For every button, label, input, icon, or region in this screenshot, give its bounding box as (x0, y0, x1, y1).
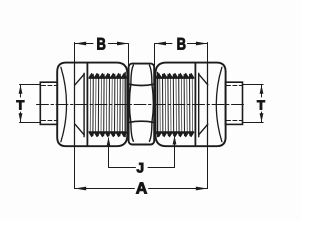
dim T right: arrows (260, 85, 264, 94)
right thread crest teeth top (157, 73, 194, 78)
hex face line upper (129, 84, 154, 85)
dim B right: line (155, 43, 173, 45)
hex facet edge top-left (131, 65, 134, 84)
hex facet edge mid-right (152, 84, 153, 123)
dim B right: arrows (155, 42, 166, 46)
dim B right: extension right (207, 43, 209, 64)
dim B left: line (75, 43, 94, 45)
dim T right: extension top (243, 84, 264, 86)
left nut + thread envelope (57, 63, 127, 147)
right thread flank lines (160, 78, 193, 132)
hex facet edge mid-left (129, 84, 130, 123)
right nut + thread envelope (156, 63, 226, 147)
svg-text:J: J (136, 160, 144, 175)
right tube hidden line bottom (227, 120, 243, 122)
svg-text:T: T (257, 97, 265, 112)
hex facet edge top-right (149, 65, 152, 84)
dim J: right arrow (173, 136, 177, 145)
left body end line (74, 63, 76, 145)
left cone slant top (75, 74, 84, 85)
dim A: right arrow (196, 187, 208, 191)
right cone base vertical (198, 73, 200, 136)
right body end line (207, 63, 209, 145)
svg-text:A: A (136, 181, 148, 198)
left thread runout line (124, 72, 126, 136)
left thread flank lines (90, 78, 123, 132)
left nut chamfer arc (61, 67, 67, 141)
right tube hidden line top (227, 85, 243, 87)
left tube hidden line bottom (42, 120, 58, 122)
left thread crest teeth bottom (89, 132, 126, 137)
left cone base vertical (83, 73, 85, 136)
hex facet edge bottom-right (149, 123, 152, 142)
center hex silhouette (129, 64, 155, 145)
svg-text:B: B (97, 34, 106, 53)
left thread crest teeth top (89, 73, 126, 78)
right cone slant bottom (199, 124, 208, 135)
hex facet edge bottom-left (131, 123, 134, 142)
dim J: line (109, 167, 136, 169)
dim T left: arrows (19, 85, 23, 94)
left nut/thread boundary (86, 63, 88, 146)
dim J: left leader (108, 138, 110, 168)
dim T left: line (20, 85, 22, 97)
dim T left: extension bottom (20, 122, 41, 124)
left cone slant bottom (75, 124, 84, 135)
dim T left: extension top (20, 84, 41, 86)
right tube stub (226, 82, 243, 124)
right thread runout line (157, 72, 159, 136)
dim A: line (75, 188, 135, 190)
right cone slant top (199, 74, 208, 85)
svg-text:T: T (16, 97, 24, 112)
left tube stub (40, 82, 57, 124)
dim T right: extension bottom (243, 122, 264, 124)
dim B left: extension right (128, 44, 130, 70)
dim B left: extension left (74, 43, 76, 64)
dim A: left arrow (75, 187, 87, 191)
dim J: left arrow (107, 137, 111, 146)
dim B left: arrows (75, 42, 87, 46)
dim A: extension left (74, 146, 76, 188)
hex face line lower (129, 121, 154, 122)
dim T right: line (261, 85, 263, 97)
dim J: right leader (174, 137, 176, 168)
right nut chamfer arc (216, 67, 222, 141)
right thread crest teeth bottom (157, 132, 194, 137)
centerline dash-dot (37, 104, 246, 106)
dim A: extension right (207, 146, 209, 188)
left tube hidden line top (42, 85, 58, 87)
dim B right: extension left (154, 44, 156, 70)
svg-text:B: B (177, 34, 186, 53)
right nut/thread boundary (194, 63, 196, 146)
